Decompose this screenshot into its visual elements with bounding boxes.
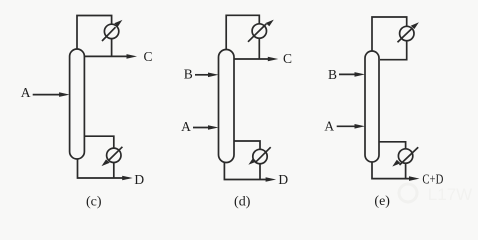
svg-text:C: C — [143, 49, 152, 64]
wire reboiler draw line (d) — [234, 141, 260, 180]
wire overhead vapor + reflux loop (e) — [372, 17, 407, 60]
condenser flow arrow (d) — [248, 20, 274, 42]
svg-text:B: B — [184, 67, 193, 82]
wire bottoms line to D (d) — [224, 160, 267, 180]
wire reboiler draw line (e) — [379, 142, 406, 179]
condenser (d) — [252, 24, 266, 38]
reboiler (c) — [107, 148, 121, 162]
svg-text:L17W: L17W — [428, 185, 472, 204]
wire reboiler draw line (c) — [85, 136, 114, 178]
reboiler flow arrow (e) — [392, 147, 418, 166]
svg-text:A: A — [181, 119, 191, 134]
wire feed B line (e) — [339, 73, 356, 75]
wire feed A line (c) — [33, 94, 61, 96]
watermark (faint) — [399, 184, 472, 204]
arrowhead bottoms C+D (e) — [409, 176, 420, 181]
condenser (e) — [400, 26, 414, 40]
arrowhead feed B (e) — [355, 72, 366, 77]
column (e) — [365, 51, 379, 162]
wire bottoms line to D (c) — [78, 157, 124, 178]
arrowhead distillate C (d) — [268, 57, 279, 62]
condenser flow arrow (e) — [398, 22, 419, 42]
svg-text:D: D — [278, 172, 288, 187]
reboiler (e) — [398, 149, 412, 163]
arrowhead bottoms D (d) — [266, 177, 277, 182]
wire feed A line (e) — [337, 125, 356, 127]
svg-text:A: A — [324, 119, 334, 134]
svg-text:A: A — [21, 85, 31, 100]
arrowhead bottoms D (c) — [122, 176, 133, 181]
wire distillate line to C (c) — [84, 55, 128, 57]
wire bottoms line to C+D (e) — [372, 160, 410, 179]
reboiler flow arrow (c) — [102, 147, 123, 166]
wire overhead vapor line (d) — [226, 15, 259, 59]
arrowhead feed A (e) — [355, 124, 366, 129]
arrowhead feed A (c) — [59, 92, 70, 97]
svg-text:(e): (e) — [374, 194, 390, 209]
svg-text:D: D — [134, 172, 144, 187]
reboiler (d) — [253, 149, 267, 163]
wire feed A line (d) — [193, 127, 210, 129]
column (d) — [219, 50, 235, 163]
arrowhead feed B (d) — [208, 73, 219, 78]
wire distillate line to C (d) — [234, 58, 270, 60]
wire overhead vapor line (c) — [77, 16, 112, 57]
arrowhead distillate C (c) — [127, 54, 138, 59]
condenser flow arrow (c) — [102, 20, 122, 41]
column (c) — [70, 49, 85, 159]
svg-text:B: B — [328, 67, 337, 82]
svg-text:(c): (c) — [86, 195, 102, 210]
arrowhead feed A (d) — [208, 125, 219, 130]
svg-text:C: C — [283, 51, 292, 66]
wire feed B line (d) — [195, 74, 210, 76]
svg-text:(d): (d) — [234, 195, 251, 210]
reboiler flow arrow (d) — [248, 147, 270, 165]
condenser (c) — [104, 24, 118, 38]
